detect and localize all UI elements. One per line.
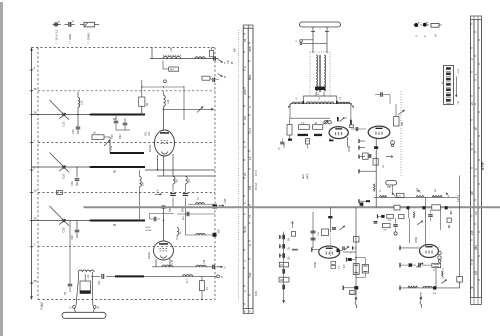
svg-text:1N: 1N [289,247,291,250]
svg-text:C11: C11 [98,280,101,285]
svg-text:abst.: abst. [302,173,305,179]
svg-text:L32: L32 [109,145,113,150]
svg-text:2M: 2M [435,189,437,192]
svg-text:EC92: EC92 [147,252,151,259]
svg-text:B: B [58,191,60,195]
svg-text:USL: USL [148,131,151,136]
svg-text:2,1: 2,1 [248,127,252,132]
svg-text:30: 30 [34,217,38,221]
svg-text:VHF: VHF [480,161,485,170]
svg-text:L15: L15 [171,259,174,264]
svg-text:2N: 2N [433,34,437,37]
svg-text:2N: 2N [289,238,291,241]
svg-text:L14: L14 [166,99,170,104]
svg-text:B: B [98,306,100,310]
svg-text:1K: 1K [280,265,283,267]
svg-text:6,3: 6,3 [474,271,478,275]
svg-text:5N: 5N [64,292,67,295]
svg-text:50 mA: 50 mA [255,182,258,190]
svg-text:EC92: EC92 [148,145,152,152]
svg-text:2N5: 2N5 [243,89,247,95]
svg-text:gang: gang [306,173,309,179]
svg-text:C32: C32 [71,129,75,134]
svg-text:1K5: 1K5 [177,178,179,183]
svg-text:2N: 2N [243,116,247,120]
svg-text:10,4-1,5: 10,4-1,5 [54,29,58,40]
svg-text:A: A [157,189,159,193]
svg-text:L16: L16 [203,259,206,264]
svg-text:3,15: 3,15 [474,244,478,250]
svg-text:L11: L11 [87,274,90,279]
svg-text:28: 28 [248,272,252,276]
svg-text:7N5: 7N5 [111,134,114,139]
svg-text:8.B: 8.B [397,196,401,198]
svg-text:1K: 1K [382,165,385,168]
svg-text:T4N2: T4N2 [40,302,44,310]
svg-text:150: 150 [306,141,309,143]
svg-text:MC88: MC88 [146,230,153,232]
svg-text:30: 30 [34,111,38,115]
svg-text:360: 360 [401,121,404,126]
svg-text:1M: 1M [383,230,386,232]
svg-text:5,1: 5,1 [248,185,252,190]
svg-text:50K: 50K [142,181,145,186]
svg-text:L13: L13 [169,47,173,52]
svg-text:1N: 1N [279,147,281,150]
svg-text:B: B [224,75,226,79]
svg-text:21: 21 [243,172,247,176]
svg-text:PC88: PC88 [348,145,351,152]
svg-text:2,5: 2,5 [474,211,478,215]
svg-text:C36: C36 [70,235,74,240]
svg-text:PC86: PC86 [415,236,418,243]
svg-text:3N2: 3N2 [119,134,122,139]
svg-text:1K: 1K [315,123,318,125]
svg-text:D: D [70,306,72,310]
svg-text:10K: 10K [280,280,285,282]
svg-text:1K: 1K [93,131,96,135]
svg-text:4N5: 4N5 [248,46,252,52]
svg-text:1K0: 1K0 [189,178,191,183]
svg-text:58: 58 [113,170,117,174]
svg-text:6,3V: 6,3V [255,291,258,296]
svg-text:C33: C33 [62,173,66,179]
svg-text:4K7: 4K7 [170,68,175,71]
svg-text:C35: C35 [62,227,66,233]
svg-text:10: 10 [34,188,38,192]
svg-text:25: 25 [243,38,247,42]
svg-text:215: 215 [470,230,474,235]
svg-text:38: 38 [34,279,38,283]
svg-text:HDN: HDN [146,227,151,229]
svg-text:47K: 47K [387,220,391,222]
svg-text:5N: 5N [289,256,291,259]
svg-text:3N5L: 3N5L [68,33,72,40]
svg-text:1K: 1K [206,287,209,290]
svg-text:L31: L31 [80,100,84,105]
svg-text:30: 30 [34,87,38,91]
svg-text:3,15: 3,15 [243,226,247,232]
svg-text:+215: +215 [458,68,460,74]
svg-text:3,5 V: 3,5 V [255,170,258,176]
svg-text:12: 12 [248,156,252,160]
svg-text:2K: 2K [145,103,149,106]
svg-text:2086L: 2086L [86,32,90,40]
svg-text:C31: C31 [62,121,66,127]
svg-text:58: 58 [113,223,117,227]
svg-text:77: 77 [248,214,252,218]
svg-text:15K: 15K [387,186,392,189]
svg-text:+235: +235 [224,198,227,204]
svg-text:PC88: PC88 [314,261,317,268]
svg-text:MF: MF [233,48,237,52]
svg-text:C34: C34 [70,181,74,186]
